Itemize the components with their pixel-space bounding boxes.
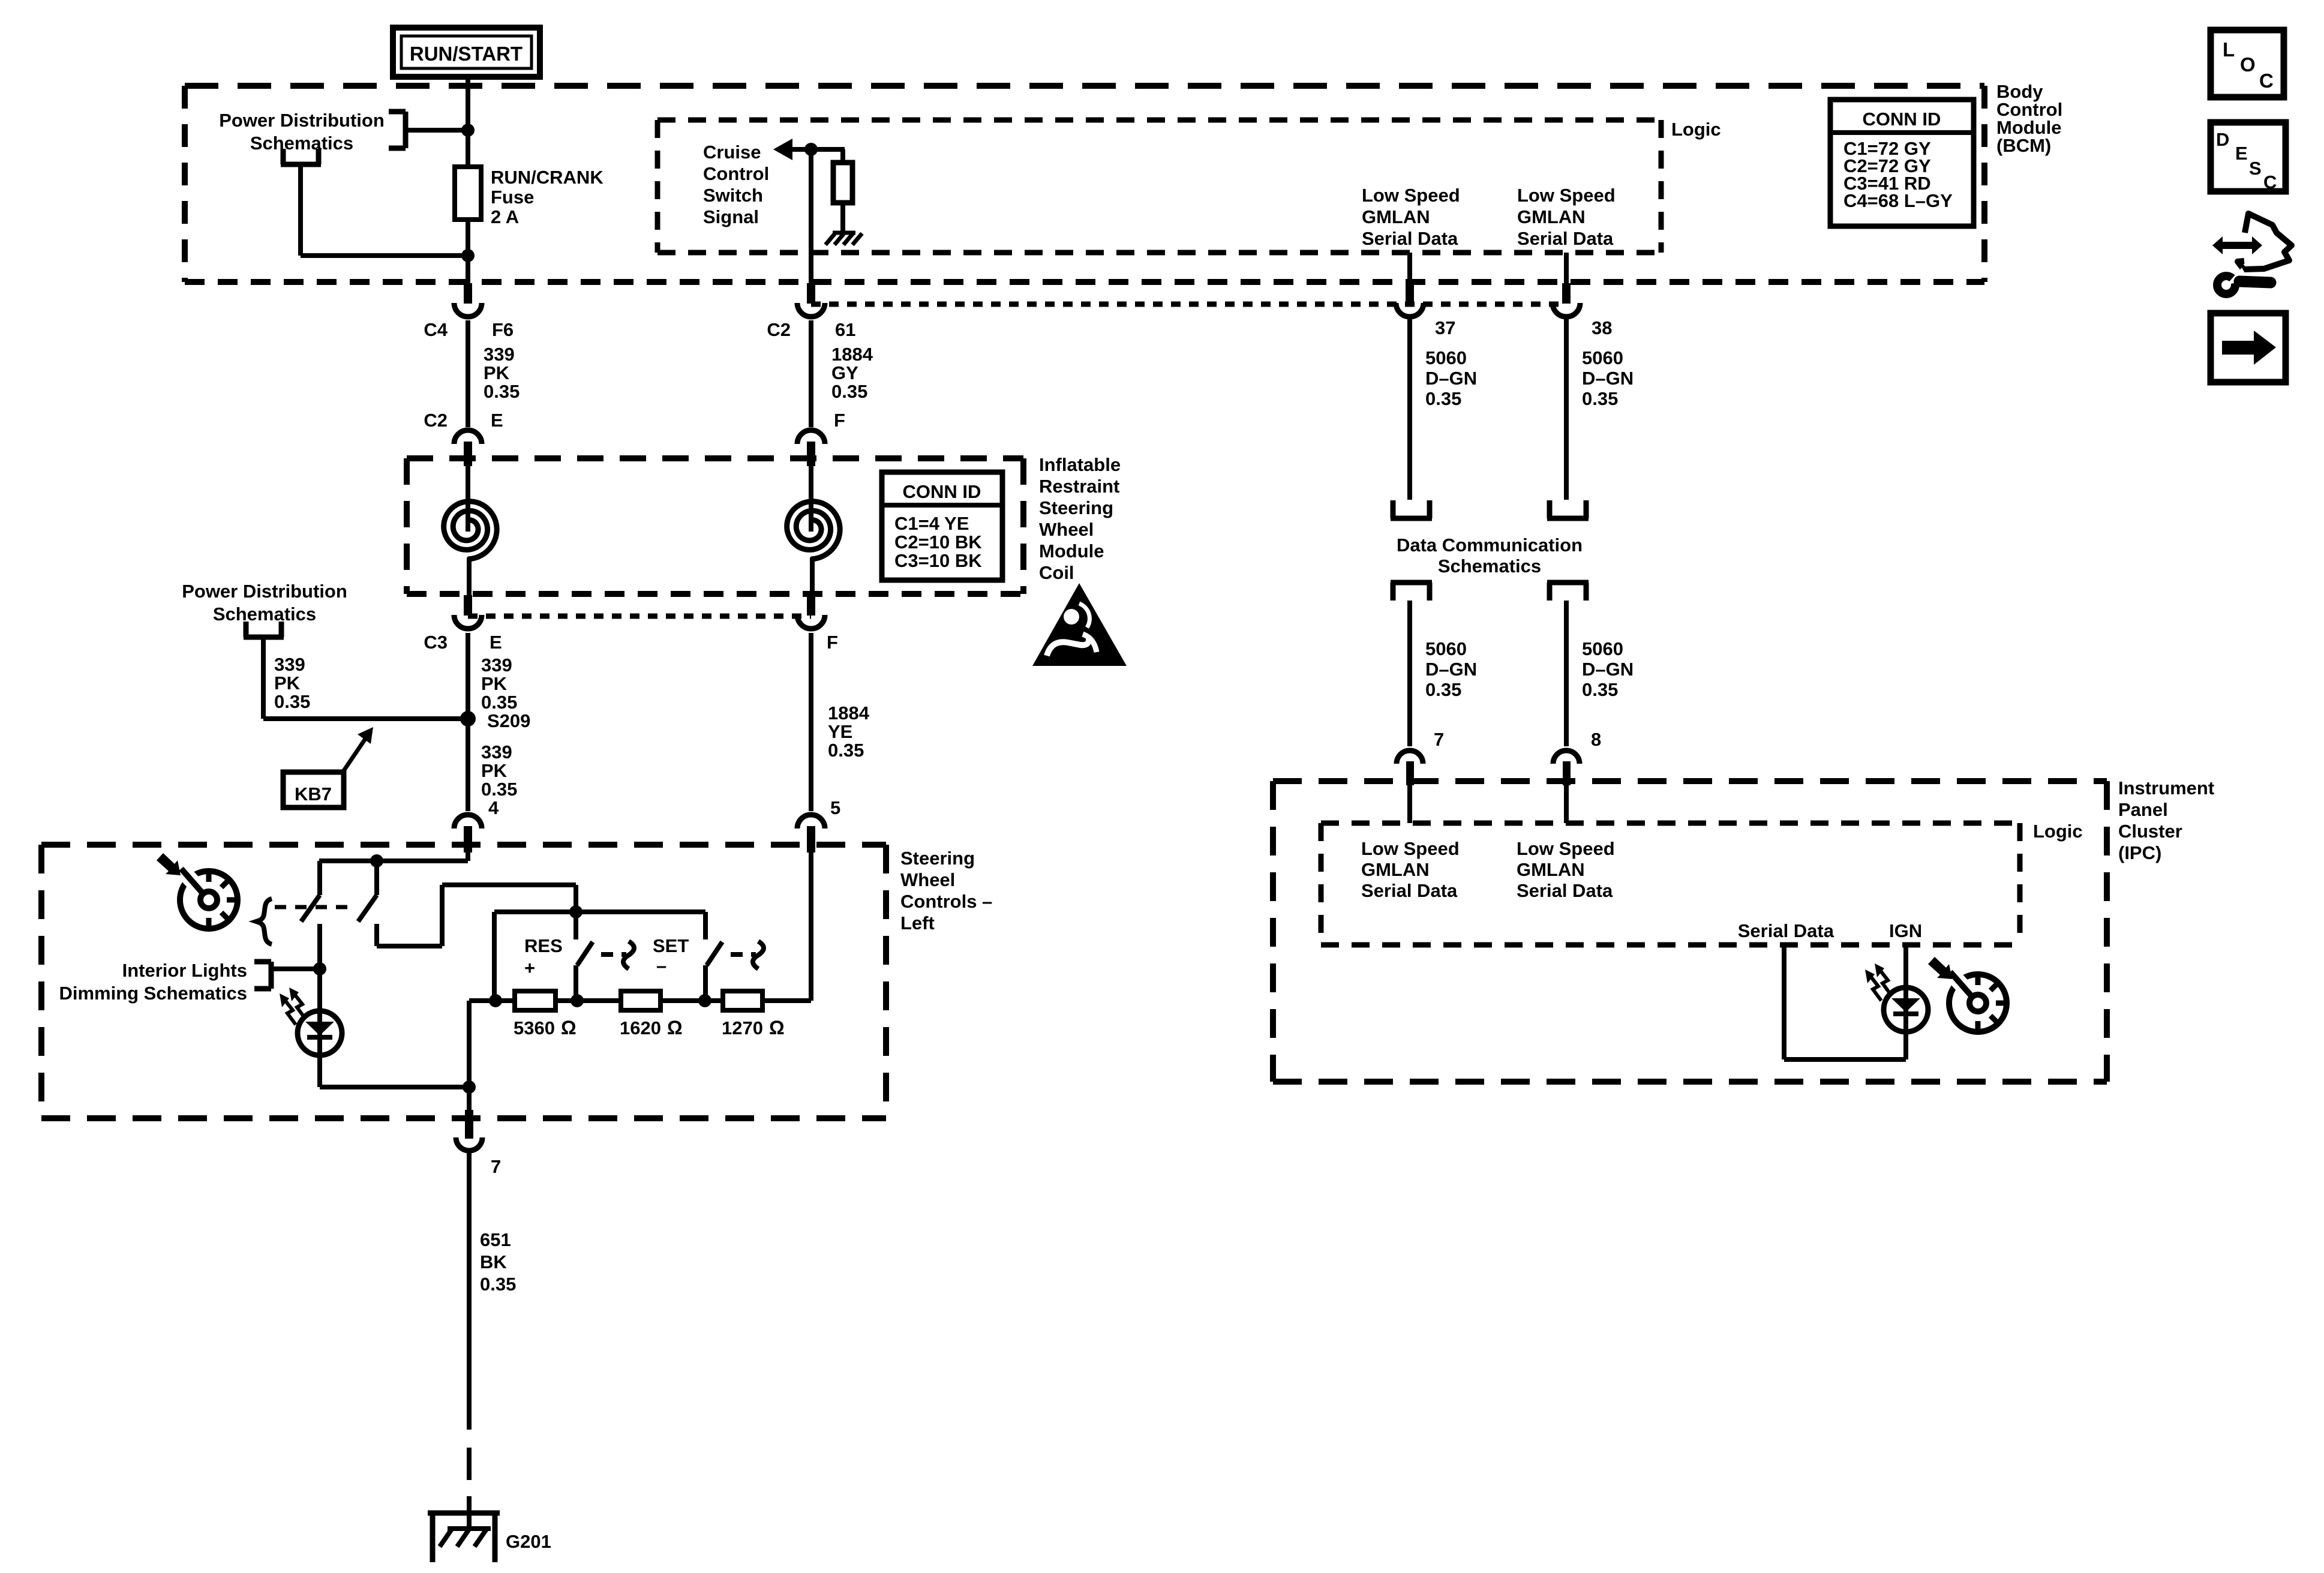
svg-text:Interior Lights: Interior Lights <box>122 960 247 981</box>
label E (coil top) <box>491 410 503 431</box>
wire to ground dashed <box>467 1448 472 1529</box>
node junction at fuse bottom <box>461 249 475 262</box>
connector pin 38 (wire D) <box>1553 283 1580 317</box>
svg-text:F: F <box>834 410 845 431</box>
svg-text:Low Speed: Low Speed <box>1517 838 1615 859</box>
label 38 <box>1592 317 1612 338</box>
label Logic (IPC) <box>2033 821 2083 842</box>
label Interior Lights Dimming Schematics <box>59 960 247 1004</box>
svg-text:GMLAN: GMLAN <box>1517 206 1586 227</box>
svg-text:Switch: Switch <box>703 185 763 206</box>
svg-text:7: 7 <box>491 1156 501 1177</box>
svg-text:SET: SET <box>653 935 689 956</box>
svg-text:1884: 1884 <box>831 344 873 365</box>
svg-text:Dimming Schematics: Dimming Schematics <box>59 983 247 1004</box>
wire cruise resistor drop <box>840 149 845 163</box>
label 8 (IPC) <box>1591 729 1601 750</box>
callout KB7 box <box>283 772 344 807</box>
wire C lower segment <box>1407 601 1412 746</box>
bracket interior lights <box>254 962 271 989</box>
svg-text:Serial Data: Serial Data <box>1738 920 1834 941</box>
node junction at fuse top <box>461 124 475 137</box>
svg-text:Cluster: Cluster <box>2118 821 2182 842</box>
label RES + <box>524 935 563 978</box>
svg-text:2 A: 2 A <box>491 206 519 227</box>
svg-text:5060: 5060 <box>1425 347 1467 368</box>
label F (row3) <box>827 632 838 653</box>
svg-text:8: 8 <box>1591 729 1601 750</box>
connector pin 37 (wire C) <box>1396 283 1424 317</box>
svg-text:Steering: Steering <box>1039 497 1113 518</box>
label Low Speed GMLAN Serial Data (BCM right) <box>1517 185 1616 249</box>
connector F (wire B row2) <box>797 430 825 466</box>
svg-text:Module: Module <box>1039 541 1104 562</box>
svg-text:Low Speed: Low Speed <box>1362 185 1460 206</box>
svg-text:7: 7 <box>1434 729 1444 750</box>
svg-text:Left: Left <box>900 912 935 933</box>
wire rail left <box>469 1001 515 1111</box>
bracket data comm D bottom <box>1547 583 1589 601</box>
svg-text:Restraint: Restraint <box>1039 476 1119 497</box>
svg-text:37: 37 <box>1435 317 1455 338</box>
inflatable restraint coil dashed box <box>407 458 1023 594</box>
label Power Distribution Schematics (top) <box>219 110 385 154</box>
wire D 5060 segment <box>1564 319 1569 500</box>
resistor R2 1620 <box>621 991 660 1010</box>
label 7 <box>491 1156 501 1177</box>
svg-text:C: C <box>2263 172 2277 193</box>
switch S2 (gang right) <box>358 861 576 946</box>
svg-text:Control: Control <box>703 163 769 184</box>
svg-text:E: E <box>2235 143 2248 164</box>
label C2 (BCM) <box>767 319 791 340</box>
svg-text:Power Distribution: Power Distribution <box>182 581 347 602</box>
coil L1 (wire A clockspring) <box>444 460 497 595</box>
CONN ID table (BCM) <box>1830 100 1974 226</box>
label Low Speed GMLAN Serial Data (IPC left) <box>1361 838 1460 901</box>
svg-text:Low Speed: Low Speed <box>1517 185 1616 206</box>
wire rail mid2 <box>660 998 723 1003</box>
svg-text:C2: C2 <box>424 410 448 431</box>
svg-text:–: – <box>656 955 666 976</box>
label SET - <box>653 935 689 976</box>
connector 5 (steering) <box>797 815 825 852</box>
svg-text:GMLAN: GMLAN <box>1361 859 1430 880</box>
svg-text:Schematics: Schematics <box>250 133 353 154</box>
svg-text:S209: S209 <box>487 710 530 731</box>
svg-text:S: S <box>2249 158 2262 179</box>
fuse RUN/CRANK 2A <box>455 167 481 220</box>
svg-text:PK: PK <box>484 362 510 383</box>
icon arrow box <box>2211 313 2286 382</box>
svg-text:GMLAN: GMLAN <box>1362 206 1430 227</box>
label 1620 ohm <box>620 1017 683 1038</box>
connector C3-E (wire A row3) <box>454 595 482 629</box>
svg-text:1620: 1620 <box>620 1017 661 1038</box>
label G201 <box>506 1531 551 1552</box>
svg-text:Power Distribution: Power Distribution <box>219 110 385 131</box>
svg-text:C4=68 L–GY: C4=68 L–GY <box>1843 190 1953 211</box>
label RUN/CRANK Fuse 2 A <box>491 167 603 227</box>
svg-text:D: D <box>2216 129 2229 150</box>
resistor R4 (cruise pull) <box>833 163 852 203</box>
connector C2 pin 61 (wire B) <box>797 283 825 317</box>
svg-text:5: 5 <box>830 797 840 818</box>
svg-text:0.35: 0.35 <box>484 381 520 402</box>
svg-text:Coil: Coil <box>1039 562 1074 583</box>
cruise signal arrow <box>773 139 845 160</box>
label 1884 YE 0.35 <box>828 703 870 761</box>
steering wheel controls dashed box <box>41 845 886 1118</box>
svg-text:E: E <box>490 632 502 653</box>
bracket data comm D top <box>1547 500 1589 518</box>
wire A fuse to connector C4 <box>466 220 470 283</box>
inline connector dotted line (top row) <box>811 302 1566 307</box>
node RES tap <box>571 994 584 1007</box>
svg-text:GMLAN: GMLAN <box>1517 859 1585 880</box>
svg-text:RES: RES <box>524 935 563 956</box>
node LED branch junction <box>313 962 326 975</box>
svg-text:Wheel: Wheel <box>900 869 955 890</box>
wire A 339 PK segment <box>466 320 470 427</box>
svg-text:GY: GY <box>831 362 858 383</box>
label Logic (BCM) <box>1671 119 1721 140</box>
svg-text:PK: PK <box>481 673 508 694</box>
node ladder top junction <box>569 905 582 918</box>
icon DESC box <box>2211 122 2286 193</box>
wire B below coil <box>809 633 813 811</box>
ground G201 <box>428 1513 500 1562</box>
wire B 1884 GY segment <box>809 320 813 427</box>
label Low Speed GMLAN Serial Data (BCM left) <box>1362 185 1460 249</box>
wire ladder top rail <box>494 912 705 1001</box>
svg-text:C4: C4 <box>424 319 448 340</box>
svg-text:Instrument: Instrument <box>2118 778 2214 798</box>
label 339 PK 0.35 (A2) <box>481 655 517 713</box>
switch SET <box>705 912 764 1001</box>
bracket under Power Distribution (mid) <box>244 622 284 637</box>
label 339 PK 0.35 (A1) <box>484 344 520 402</box>
label F6 <box>492 319 514 340</box>
svg-text:C1=4 YE: C1=4 YE <box>894 513 969 534</box>
svg-text:0.35: 0.35 <box>1582 388 1618 409</box>
switch RES <box>576 912 634 1001</box>
svg-text:L: L <box>2223 38 2235 61</box>
icon LOC box <box>2211 30 2284 97</box>
label Data Communication Schematics <box>1397 535 1583 577</box>
svg-text:Panel: Panel <box>2118 799 2168 820</box>
label 5 <box>830 797 840 818</box>
svg-text:0.35: 0.35 <box>480 1274 516 1295</box>
icon gauge (IPC) <box>1945 967 2007 1032</box>
label 5060 D-GN 0.35 (C1) <box>1425 347 1477 409</box>
svg-text:1270: 1270 <box>722 1017 763 1038</box>
CONN ID table (coil) <box>882 472 1002 580</box>
svg-text:D–GN: D–GN <box>1425 659 1477 680</box>
svg-text:0.35: 0.35 <box>828 740 864 761</box>
svg-text:5060: 5060 <box>1425 638 1467 659</box>
wire bracket to wire A <box>406 128 468 133</box>
svg-text:651: 651 <box>480 1229 511 1250</box>
label 5360 ohm <box>514 1017 577 1038</box>
svg-text:Schematics: Schematics <box>1438 556 1541 577</box>
svg-text:C2: C2 <box>767 319 791 340</box>
svg-text:+: + <box>524 957 535 978</box>
svg-text:D–GN: D–GN <box>1582 368 1634 389</box>
svg-text:IGN: IGN <box>1889 920 1922 941</box>
svg-text:0.35: 0.35 <box>1425 679 1461 700</box>
svg-text:KB7: KB7 <box>295 784 332 804</box>
svg-text:D–GN: D–GN <box>1582 659 1634 680</box>
label Body Control Module (BCM) <box>1996 81 2062 156</box>
svg-text:0.35: 0.35 <box>831 381 867 402</box>
svg-text:C: C <box>2259 70 2274 92</box>
IPC dashed box <box>1273 781 2107 1082</box>
svg-text:339: 339 <box>274 654 305 675</box>
callout KB7 arrow <box>342 727 373 773</box>
node connector7 junction <box>463 1080 476 1094</box>
label Low Speed GMLAN Serial Data (IPC right) <box>1517 838 1615 901</box>
chassis ground (cruise) <box>825 233 862 245</box>
label 1270 ohm <box>722 1017 785 1038</box>
svg-text:F6: F6 <box>492 319 514 340</box>
svg-text:CONN ID: CONN ID <box>1863 109 1941 130</box>
svg-text:(BCM): (BCM) <box>1996 135 2051 156</box>
wire 339 PK branch <box>263 637 468 719</box>
icon arrow pointer (IPC) <box>1928 957 1952 979</box>
bracket data comm C top <box>1391 500 1432 518</box>
svg-text:0.35: 0.35 <box>481 779 517 800</box>
label Serial Data (IPC) <box>1738 920 1834 941</box>
svg-text:C3: C3 <box>424 632 448 653</box>
svg-text:F: F <box>827 632 838 653</box>
label Steering Wheel Controls Left <box>900 848 992 933</box>
label Power Distribution Schematics (mid) <box>182 581 347 625</box>
label 37 <box>1435 317 1455 338</box>
svg-text:0.35: 0.35 <box>1425 388 1461 409</box>
LED D1 (dimming indicator) <box>280 969 342 1056</box>
label 61 <box>835 319 855 340</box>
svg-text:CONN ID: CONN ID <box>903 481 981 502</box>
label 5060 D-GN 0.35 (C2) <box>1425 638 1477 700</box>
svg-text:Inflatable: Inflatable <box>1039 454 1121 475</box>
svg-text:C3=10 BK: C3=10 BK <box>894 550 982 571</box>
label 7 (IPC) <box>1434 729 1444 750</box>
svg-text:(IPC): (IPC) <box>2118 842 2161 863</box>
svg-text:Serial Data: Serial Data <box>1361 880 1458 901</box>
svg-text:Logic: Logic <box>2033 821 2083 842</box>
switch gang linkage spring <box>256 899 355 944</box>
svg-text:Serial Data: Serial Data <box>1517 880 1613 901</box>
svg-text:Logic: Logic <box>1671 119 1721 140</box>
node cruise junction <box>804 143 818 156</box>
svg-text:Data Communication: Data Communication <box>1397 535 1583 556</box>
wire D in BCM <box>1564 253 1569 283</box>
svg-text:339: 339 <box>484 344 515 365</box>
icon service wrench <box>2212 214 2292 294</box>
svg-text:0.35: 0.35 <box>481 692 517 713</box>
svg-text:O: O <box>2240 53 2256 76</box>
label 1884 GY 0.35 <box>831 344 873 402</box>
LED D2 (IPC indicator) <box>1865 963 1928 1032</box>
wire bracket to LED node <box>271 966 320 971</box>
svg-text:Ω: Ω <box>667 1017 683 1038</box>
svg-text:YE: YE <box>828 721 852 742</box>
svg-text:0.35: 0.35 <box>1582 679 1618 700</box>
svg-text:Signal: Signal <box>703 206 759 227</box>
label C2 (coil) <box>424 410 448 431</box>
svg-text:38: 38 <box>1592 317 1612 338</box>
wire resistor to ground <box>840 203 845 233</box>
svg-text:Steering: Steering <box>900 848 975 869</box>
svg-text:BK: BK <box>480 1251 507 1272</box>
label IGN (IPC) <box>1889 920 1922 941</box>
svg-text:4: 4 <box>488 797 499 818</box>
label Cruise Control Switch Signal <box>703 142 769 227</box>
BCM logic dashed box <box>657 120 1661 253</box>
wire serial data loop <box>1784 945 1906 1059</box>
wire B cruise to connector <box>809 149 813 283</box>
label 5060 D-GN 0.35 (D2) <box>1582 638 1634 700</box>
svg-text:RUN/START: RUN/START <box>410 43 523 65</box>
node SET tap <box>698 994 711 1007</box>
label Inflatable Restraint Steering Wheel Module Coil <box>1039 454 1121 583</box>
BCM module dashed box <box>185 86 1984 282</box>
label 339 PK 0.35 (A3) <box>481 742 517 800</box>
coil L2 (wire B clockspring) <box>787 460 840 595</box>
bracket data comm C bottom <box>1391 583 1432 601</box>
svg-text:Ω: Ω <box>769 1017 785 1038</box>
bracket under Power Distribution <box>281 149 321 164</box>
wire C 5060 segment <box>1407 319 1412 500</box>
resistor R1 5360 <box>515 991 556 1010</box>
svg-text:0.35: 0.35 <box>274 691 310 712</box>
wire IGN drop <box>1903 945 1908 1059</box>
bracket ref (top power distribution) <box>389 112 406 148</box>
icon SRS warning triangle <box>1032 583 1127 666</box>
svg-text:5360: 5360 <box>514 1017 555 1038</box>
svg-text:Serial Data: Serial Data <box>1517 228 1614 249</box>
svg-text:D–GN: D–GN <box>1425 368 1477 389</box>
label 651 BK 0.35 <box>480 1229 516 1295</box>
node rail left junction <box>489 994 502 1007</box>
wire rail right to wire B <box>762 852 811 1001</box>
connector 8 (IPC) <box>1553 751 1580 823</box>
resistor R3 1270 <box>723 991 762 1010</box>
svg-text:Serial Data: Serial Data <box>1362 228 1458 249</box>
wire A below coil <box>466 633 470 811</box>
svg-text:Ω: Ω <box>561 1017 577 1038</box>
connector C4 pin F6 (wire A) <box>454 283 482 317</box>
svg-text:G201: G201 <box>506 1531 551 1552</box>
svg-text:Controls –: Controls – <box>900 891 992 912</box>
wire D lower segment <box>1564 601 1569 746</box>
svg-text:5060: 5060 <box>1582 347 1623 368</box>
svg-text:61: 61 <box>835 319 855 340</box>
label F (coil top) <box>834 410 845 431</box>
node switch feed junction <box>370 854 383 867</box>
connector 7 (IPC) <box>1397 751 1423 823</box>
connector C2-E (wire A row2) <box>454 430 482 466</box>
svg-text:Fuse: Fuse <box>491 187 534 208</box>
svg-text:RUN/CRANK: RUN/CRANK <box>491 167 603 188</box>
wire C in BCM <box>1407 253 1412 283</box>
title block RUN/START <box>393 28 540 77</box>
switch S1 (gang left) <box>301 861 320 969</box>
svg-text:339: 339 <box>481 742 512 763</box>
connector F (wire B row3) <box>797 595 825 629</box>
svg-text:1884: 1884 <box>828 703 870 724</box>
connector 4 (steering) <box>454 815 482 852</box>
wire LED to connector 7 <box>320 1055 469 1087</box>
label S209 <box>487 710 530 731</box>
label C3 <box>424 632 448 653</box>
svg-text:C2=10 BK: C2=10 BK <box>894 532 982 553</box>
wire A from RUN/START <box>466 77 470 167</box>
label 339 PK 0.35 (branch) <box>274 654 310 712</box>
svg-text:339: 339 <box>481 655 512 676</box>
label C4 <box>424 319 448 340</box>
wire power distribution loop <box>301 164 468 256</box>
svg-text:5060: 5060 <box>1582 638 1623 659</box>
svg-text:Cruise: Cruise <box>703 142 761 163</box>
svg-text:Wheel: Wheel <box>1039 519 1094 540</box>
inline connector dotted line (row3) <box>468 614 811 619</box>
label Instrument Panel Cluster (IPC) <box>2118 778 2214 863</box>
label 4 <box>488 797 499 818</box>
node S209 <box>460 711 476 727</box>
wire A to switch feed <box>319 852 468 861</box>
svg-text:E: E <box>491 410 503 431</box>
connector 7 (steering bottom) <box>456 1110 482 1430</box>
IPC logic dashed box <box>1321 823 2020 945</box>
icon arrow pointer (steering) <box>157 853 181 875</box>
svg-text:PK: PK <box>481 760 508 781</box>
label E (row3) <box>490 632 502 653</box>
wire rail mid1 <box>556 998 621 1003</box>
icon gauge (steering) <box>176 864 238 929</box>
svg-text:PK: PK <box>274 673 301 694</box>
label 5060 D-GN 0.35 (D1) <box>1582 347 1634 409</box>
svg-text:Low Speed: Low Speed <box>1361 838 1460 859</box>
svg-text:Schematics: Schematics <box>213 604 316 625</box>
